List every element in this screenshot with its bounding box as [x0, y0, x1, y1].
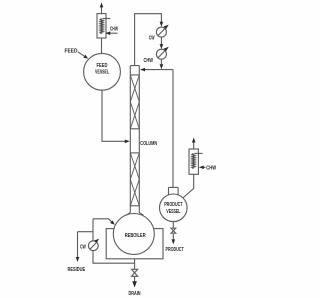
- drain wire and valve: [132, 259, 138, 288]
- condenser E1 (feed vessel vent condenser): [97, 14, 106, 38]
- product vessel V2: [160, 194, 188, 222]
- product outlet valve: [171, 222, 176, 245]
- svg-text:VESSEL: VESSEL: [166, 209, 181, 215]
- column packing X section upper: [130, 75, 139, 129]
- svg-text:CW: CW: [149, 36, 155, 42]
- wire into reboiler with diagonal arrow: [93, 219, 115, 225]
- svg-text:REBOILER: REBOILER: [125, 233, 146, 239]
- svg-text:FEED: FEED: [97, 63, 108, 69]
- heat exchanger HX2 (CHW condenser): [156, 47, 168, 60]
- wire E1 to feed vessel: [101, 38, 103, 53]
- reboiler R1: [113, 214, 154, 255]
- wire feed line to column: [102, 90, 130, 143]
- wire HX1 to HX2 with arrow: [160, 37, 164, 49]
- column packing X section lower: [130, 153, 139, 206]
- CW loop wire down-left of reboiler: [93, 219, 135, 263]
- reboiler neck flare: [126, 213, 143, 216]
- svg-text:CHW: CHW: [206, 165, 216, 171]
- coil of E2: [192, 153, 195, 168]
- overhead vapor wire with arrow: [135, 14, 164, 66]
- CHW inlet arrow into E1: [105, 31, 117, 35]
- label FEED with arrow: [65, 49, 89, 59]
- svg-text:CW: CW: [80, 244, 86, 250]
- svg-text:PRODUCT: PRODUCT: [164, 202, 183, 208]
- reflux wire with arrow into column top: [140, 68, 173, 72]
- svg-text:CHW: CHW: [144, 58, 154, 64]
- svg-text:COLUMN: COLUMN: [140, 141, 157, 147]
- residue wire with arrow: [76, 232, 93, 262]
- condenser E2 (product vessel vent condenser): [189, 149, 198, 174]
- svg-text:CHW: CHW: [110, 27, 118, 33]
- heat exchanger HX3 (CW bottoms cooler): [88, 239, 99, 251]
- svg-text:DRAIN: DRAIN: [129, 291, 141, 297]
- wire E2 coil outlet: [194, 152, 202, 154]
- wire HX2 down to reflux tee with arrow: [160, 59, 164, 69]
- vent arrow above E2: [192, 138, 196, 150]
- svg-text:RESIDUE: RESIDUE: [68, 267, 86, 273]
- CHW inlet arrow into E2: [199, 166, 206, 170]
- heat exchanger HX1 (CW condenser): [156, 25, 168, 37]
- product vessel V2 neck: [169, 187, 179, 195]
- coil of E1: [100, 19, 103, 34]
- svg-text:PRODUCT: PRODUCT: [166, 247, 185, 253]
- vent arrow above condenser E1: [100, 2, 104, 13]
- distillate wire down to product vessel: [172, 70, 174, 188]
- svg-text:VESSEL: VESSEL: [95, 69, 109, 75]
- svg-text:FEED: FEED: [65, 49, 78, 55]
- reboiler jacket/bath: [106, 229, 163, 259]
- feed vessel V1: [84, 53, 121, 90]
- wire E2 to product vessel: [183, 174, 193, 197]
- column C1 shell: [130, 66, 139, 213]
- wire E1 coil outlet: [103, 18, 111, 20]
